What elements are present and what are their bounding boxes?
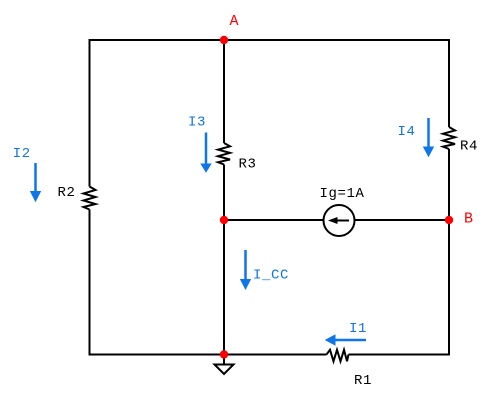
wire middle vertical upper	[223, 40, 225, 143]
svg-text:R4: R4	[460, 138, 478, 154]
wire right upper	[448, 39, 450, 127]
current source Ig circle	[324, 205, 355, 236]
wire bottom left segment	[89, 354, 327, 356]
arrow I_CC	[240, 250, 251, 290]
arrow I2	[30, 163, 41, 202]
arrow I3	[200, 133, 211, 173]
svg-text:A: A	[230, 13, 240, 30]
node A	[220, 36, 228, 44]
node ground	[220, 350, 228, 358]
svg-text:I4: I4	[398, 124, 416, 140]
svg-text:R1: R1	[354, 373, 372, 389]
node junction mid	[220, 216, 228, 224]
current source arrowhead	[328, 217, 338, 224]
resistor R2	[84, 187, 96, 210]
svg-text:B: B	[464, 210, 474, 227]
svg-text:I_CC: I_CC	[253, 268, 289, 284]
wire bottom right segment	[349, 354, 451, 356]
wire middle horizontal left of source	[224, 219, 324, 221]
svg-text:R2: R2	[58, 185, 76, 201]
resistor R1	[327, 350, 349, 362]
arrow I4	[423, 118, 434, 157]
wire middle horizontal right of source	[355, 219, 450, 221]
wire right lower	[448, 149, 450, 356]
wire top (node A rail)	[90, 39, 450, 41]
wire middle vertical lower	[223, 165, 225, 355]
svg-text:R3: R3	[239, 157, 257, 173]
svg-text:Ig=1A: Ig=1A	[320, 186, 365, 202]
svg-text:I1: I1	[349, 321, 367, 337]
svg-text:I2: I2	[13, 146, 31, 162]
wire left upper	[89, 39, 91, 187]
wire left lower	[89, 210, 91, 356]
svg-text:I3: I3	[188, 115, 206, 131]
node B	[445, 216, 453, 224]
current source arrow shaft	[336, 220, 349, 222]
resistor R4	[443, 127, 455, 149]
arrow I1	[325, 334, 366, 345]
ground	[215, 355, 234, 375]
resistor R3	[218, 143, 230, 165]
